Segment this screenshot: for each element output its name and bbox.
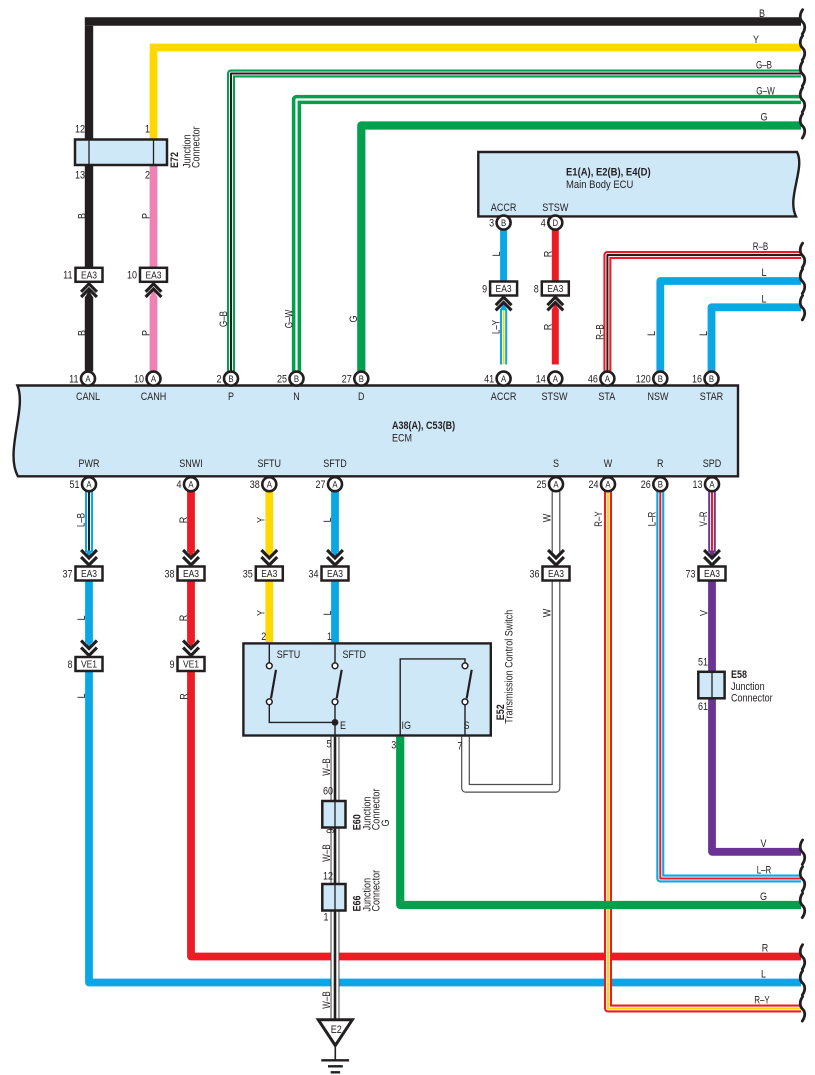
- label wire V–R: [698, 511, 710, 526]
- svg-text:A: A: [151, 374, 157, 385]
- svg-text:STSW: STSW: [542, 202, 569, 214]
- ECM bottom pin 38 A: [250, 477, 277, 491]
- svg-text:R–Y: R–Y: [754, 995, 770, 1007]
- svg-text:R: R: [657, 458, 664, 470]
- ECM bottom pin 24 A: [589, 477, 616, 491]
- wire G: to ECM pin D: [361, 126, 801, 372]
- label wire L–R: [646, 512, 658, 527]
- label wire W: [541, 513, 553, 522]
- svg-text:7: 7: [458, 741, 463, 753]
- svg-text:9: 9: [325, 829, 337, 834]
- svg-text:60: 60: [323, 785, 333, 797]
- svg-text:CANL: CANL: [76, 391, 100, 403]
- label E52: [495, 704, 507, 720]
- ECM top pin 16 B: [692, 372, 719, 386]
- label wire B: [759, 8, 765, 20]
- svg-text:61: 61: [698, 701, 708, 713]
- transmission control switch E52 box: [243, 643, 490, 735]
- svg-text:W–B: W–B: [321, 844, 333, 861]
- connector EA3 11: [63, 268, 102, 297]
- svg-text:CANH: CANH: [141, 391, 167, 403]
- connector EA3 37: [63, 550, 103, 581]
- svg-text:B: B: [709, 374, 714, 385]
- label wire R: [542, 324, 554, 331]
- label wire Y: [753, 34, 760, 46]
- ECM bottom pin 13 A: [693, 477, 720, 491]
- svg-text:G: G: [760, 891, 767, 903]
- svg-text:4: 4: [177, 479, 182, 491]
- svg-text:10: 10: [134, 374, 144, 386]
- svg-text:A: A: [553, 480, 559, 491]
- svg-text:R: R: [542, 251, 554, 258]
- svg-text:R–Y: R–Y: [593, 511, 605, 527]
- svg-text:ECM: ECM: [392, 432, 412, 444]
- svg-text:P: P: [140, 213, 152, 219]
- wire continuation brace: [800, 36, 805, 60]
- svg-text:STSW: STSW: [541, 391, 568, 403]
- wire R red: EA3 8 to ECM STSW: [552, 303, 559, 364]
- wire W white: EA3 36 down, left, up to E52 pin 7: [466, 581, 557, 789]
- svg-text:51: 51: [698, 656, 708, 668]
- svg-text:D: D: [358, 391, 365, 403]
- wire continuation brace: [800, 269, 805, 293]
- svg-text:EA3: EA3: [327, 569, 343, 580]
- svg-text:EA3: EA3: [548, 569, 564, 580]
- label E66 Junction: [361, 878, 373, 912]
- label E72: [169, 152, 181, 168]
- label ECM pin name NSW: [648, 391, 669, 403]
- svg-text:26: 26: [641, 479, 651, 491]
- label wire R–Y: [593, 511, 605, 527]
- wire W-B: E60 to E66: [331, 828, 340, 885]
- label ECM pin name SFTU: [258, 458, 282, 470]
- label wire L: [698, 331, 710, 336]
- label wire G: [761, 112, 768, 124]
- svg-text:G: G: [348, 316, 360, 323]
- label E60 Junction: [361, 797, 373, 831]
- label S in E52: [464, 720, 470, 732]
- label E52 pin 2: [261, 631, 266, 643]
- pin 3 B of Main Body ECU: [489, 216, 511, 230]
- label wire B: [76, 213, 88, 219]
- E52 SFTD switch: [332, 645, 342, 723]
- label wire W: [541, 608, 553, 617]
- svg-text:24: 24: [589, 479, 599, 491]
- junction connector E58: [698, 672, 724, 699]
- svg-text:B: B: [658, 480, 663, 491]
- label wire R: [762, 943, 769, 955]
- wire continuation brace: [800, 997, 805, 1021]
- wire continuation brace: [800, 62, 805, 86]
- svg-text:EA3: EA3: [547, 284, 563, 295]
- svg-text:14: 14: [536, 374, 546, 386]
- svg-text:9: 9: [170, 659, 175, 671]
- svg-text:W–B: W–B: [321, 991, 333, 1008]
- svg-text:B: B: [76, 213, 88, 219]
- svg-text:L–R: L–R: [646, 512, 658, 527]
- svg-text:46: 46: [588, 374, 598, 386]
- svg-text:L: L: [762, 294, 767, 306]
- ECM top pin 10 A: [134, 372, 161, 386]
- label ECM pin name D: [358, 391, 365, 403]
- wire V purple: EA3 73 through E58 down and right to edge: [712, 581, 801, 852]
- svg-text:ACCR: ACCR: [491, 391, 517, 403]
- label E52 Transmission Control Switch: [503, 610, 515, 724]
- wire B black: EA3 11 to ECM CANL (arrow tip): [85, 290, 92, 297]
- svg-text:S: S: [553, 458, 559, 470]
- ECM bottom pin 26 B: [641, 477, 668, 491]
- label ECM pin name S: [553, 458, 559, 470]
- label E60 pin 60: [323, 785, 333, 797]
- label E52 pin 3: [391, 739, 396, 751]
- svg-text:SPD: SPD: [703, 458, 722, 470]
- wire R-Y: ECM W down and right to edge: [608, 491, 801, 1008]
- label wire L: [491, 252, 503, 257]
- label wire L: [762, 267, 767, 279]
- label wire V: [698, 609, 710, 616]
- svg-text:13: 13: [693, 479, 703, 491]
- svg-text:A: A: [709, 480, 715, 491]
- ECM top pin 46 A: [588, 372, 615, 386]
- label E60 pin 9: [325, 829, 337, 834]
- svg-text:Y: Y: [256, 516, 268, 523]
- wire R-B: ECM STA up and right: [607, 255, 801, 371]
- svg-text:L–B: L–B: [75, 513, 87, 527]
- svg-text:PWR: PWR: [79, 458, 100, 470]
- label wire L: [761, 969, 766, 981]
- svg-text:1: 1: [324, 911, 329, 923]
- label wire G: [380, 820, 392, 827]
- svg-text:VE1: VE1: [81, 660, 97, 671]
- connector EA3 8: [534, 282, 569, 311]
- label ECM pin name PWR: [79, 458, 100, 470]
- wire continuation brace: [800, 88, 805, 112]
- wire P pink: E72 to EA3 10: [150, 165, 158, 268]
- svg-text:EA3: EA3: [704, 569, 720, 580]
- svg-text:EA3: EA3: [261, 569, 277, 580]
- label wire L: [322, 518, 334, 523]
- label ECM pin name CANH: [141, 391, 167, 403]
- label wire L–Y: [490, 320, 502, 334]
- label E66: [351, 896, 363, 912]
- svg-text:16: 16: [692, 374, 702, 386]
- svg-text:Main Body ECU: Main Body ECU: [566, 179, 633, 191]
- svg-text:Y: Y: [753, 34, 760, 46]
- svg-text:Junction: Junction: [731, 681, 765, 693]
- svg-text:9: 9: [482, 283, 487, 295]
- svg-text:IG: IG: [402, 720, 412, 732]
- svg-text:A: A: [501, 374, 507, 385]
- svg-text:EA3: EA3: [145, 270, 161, 281]
- svg-text:EA3: EA3: [496, 284, 512, 295]
- svg-text:B: B: [294, 374, 299, 385]
- svg-text:38: 38: [165, 568, 175, 580]
- label wire G: [348, 316, 360, 323]
- label wire R: [178, 517, 190, 524]
- label wire B: [76, 330, 88, 336]
- svg-text:73: 73: [686, 568, 696, 580]
- svg-text:B: B: [501, 218, 506, 229]
- pin 4 D of Main Body ECU: [541, 216, 563, 230]
- ECM bottom pin 25 A: [537, 477, 564, 491]
- label E72 Connector: [191, 126, 203, 168]
- wire L-B: ECM PWR to EA3 37: [85, 491, 92, 557]
- wire B black: E72 to EA3 11: [85, 165, 93, 268]
- wire L blue: EA3 34 to E52 pin 1: [331, 581, 339, 643]
- svg-text:A38(A), C53(B): A38(A), C53(B): [392, 420, 455, 432]
- svg-text:L–Y: L–Y: [490, 320, 502, 334]
- svg-text:B: B: [759, 8, 765, 20]
- svg-text:27: 27: [342, 374, 352, 386]
- E52 node E: [332, 719, 339, 737]
- E52 IG-S switch: [400, 659, 472, 736]
- svg-text:38: 38: [250, 479, 260, 491]
- ECM bottom pin 27 A: [316, 477, 343, 491]
- svg-text:2: 2: [217, 374, 222, 386]
- svg-text:EA3: EA3: [81, 270, 97, 281]
- label E52 pin 7: [458, 741, 463, 753]
- label E72 pin 2: [145, 170, 150, 182]
- svg-text:G: G: [380, 820, 392, 827]
- svg-text:3: 3: [391, 739, 396, 751]
- svg-text:E: E: [340, 720, 346, 732]
- wire L blue: ECM STAR up and right: [712, 307, 802, 371]
- label wire L: [322, 611, 334, 616]
- label E58 pin 51: [698, 656, 708, 668]
- svg-text:8: 8: [68, 659, 73, 671]
- svg-text:VE1: VE1: [183, 660, 199, 671]
- svg-text:B: B: [228, 374, 233, 385]
- connector EA3 10: [127, 268, 167, 297]
- wire R red: Main Body ECU STSW to EA3 8: [552, 230, 559, 282]
- svg-text:E58: E58: [731, 669, 747, 681]
- label wire G: [760, 891, 767, 903]
- wire L-Y: EA3 9 to ECM ACCR: [500, 303, 507, 364]
- label wire W–B: [321, 991, 333, 1008]
- label wire L: [76, 616, 88, 621]
- label E58: [731, 669, 747, 681]
- ECM box A38(A) C53(B): [14, 386, 738, 477]
- svg-text:A: A: [605, 480, 611, 491]
- label E58 pin 61: [698, 701, 708, 713]
- svg-text:35: 35: [243, 568, 253, 580]
- svg-text:A: A: [605, 374, 611, 385]
- svg-text:L: L: [322, 611, 334, 616]
- label wire G–B: [218, 311, 230, 327]
- svg-text:V: V: [698, 609, 710, 616]
- connector EA3 35: [243, 550, 283, 581]
- svg-text:Connector: Connector: [371, 870, 383, 912]
- svg-text:34: 34: [309, 568, 319, 580]
- svg-text:A: A: [553, 374, 559, 385]
- label wire V: [761, 838, 768, 850]
- label wire L: [646, 331, 658, 336]
- label wire R–B: [753, 241, 769, 253]
- svg-text:1: 1: [327, 631, 332, 643]
- wire continuation brace: [800, 243, 805, 267]
- svg-text:B: B: [359, 374, 364, 385]
- wire B (CANL) black: horizontal top and vertical to E72: [85, 22, 801, 140]
- label wire L: [76, 694, 88, 699]
- ECM bottom pin 51 A: [70, 477, 97, 491]
- ECM top pin 25 B: [277, 372, 304, 386]
- svg-text:P: P: [228, 391, 234, 403]
- label ECM pin name P: [228, 391, 234, 403]
- wire V-R: ECM SPD to EA3 73: [708, 491, 715, 557]
- svg-text:B: B: [76, 330, 88, 336]
- svg-text:V–R: V–R: [698, 511, 710, 526]
- connector EA3 34: [309, 550, 349, 581]
- label E52 pin 5: [327, 739, 332, 751]
- svg-text:120: 120: [636, 374, 651, 386]
- svg-text:NSW: NSW: [648, 391, 669, 403]
- wire R red: EA3 38 to VE1 9: [187, 581, 194, 649]
- wire Y yellow: horizontal top and vertical to E72: [150, 48, 801, 140]
- svg-text:36: 36: [530, 568, 540, 580]
- label E72 Junction: [181, 134, 193, 168]
- svg-text:R: R: [178, 517, 190, 524]
- svg-text:2: 2: [261, 631, 266, 643]
- connector VE1 8: [68, 641, 103, 672]
- svg-text:G–W: G–W: [756, 86, 775, 98]
- svg-text:12: 12: [323, 870, 333, 882]
- connector EA3 9: [482, 282, 517, 311]
- wire continuation brace: [800, 971, 805, 995]
- label SFTU in E52: [277, 649, 301, 661]
- svg-text:13: 13: [75, 170, 85, 182]
- ECM top pin 14 A: [536, 372, 563, 386]
- svg-text:L: L: [646, 331, 658, 336]
- label wire R: [178, 615, 190, 622]
- svg-text:12: 12: [75, 124, 85, 136]
- svg-text:L: L: [491, 252, 503, 257]
- label E66 Connector: [371, 870, 383, 912]
- label wire W–B: [321, 758, 333, 775]
- label ECM pin name N: [293, 391, 300, 403]
- svg-text:R–B: R–B: [594, 324, 606, 340]
- wire L blue: ECM SFTD to EA3 34: [331, 491, 338, 557]
- svg-text:EA3: EA3: [183, 569, 199, 580]
- svg-text:W: W: [604, 458, 613, 470]
- svg-text:R–B: R–B: [753, 241, 769, 253]
- connector EA3 36: [530, 550, 570, 581]
- wire L blue: VE1 8 down, right to edge (bottom horizontal): [89, 672, 801, 983]
- svg-text:E1(A), E2(B), E4(D): E1(A), E2(B), E4(D): [566, 167, 651, 179]
- svg-text:SNWI: SNWI: [179, 458, 203, 470]
- wire Y yellow: EA3 35 to E52 pin 2: [265, 581, 273, 643]
- label wire L–R: [757, 865, 772, 877]
- label wire L–B: [75, 513, 87, 527]
- svg-text:SFTD: SFTD: [343, 649, 367, 661]
- svg-text:Transmission Control Switch: Transmission Control Switch: [503, 610, 515, 724]
- svg-text:A: A: [86, 480, 92, 491]
- wire L blue: ECM NSW up and right: [660, 281, 801, 371]
- svg-text:2: 2: [145, 170, 150, 182]
- ECM top pin 41 A: [484, 372, 511, 386]
- wire B black: below EA3 11 to ECM CANL: [85, 297, 93, 372]
- ECM bottom pin 4 A: [177, 477, 199, 491]
- label ECM pin name SFTD: [323, 458, 347, 470]
- wire P pink: EA3 10 to ECM CANH (arrow tip): [150, 290, 157, 297]
- ECM top pin 120 B: [636, 372, 668, 386]
- svg-text:E72: E72: [169, 152, 181, 168]
- svg-text:37: 37: [63, 568, 73, 580]
- svg-text:P: P: [140, 330, 152, 336]
- svg-text:D: D: [553, 218, 559, 229]
- svg-text:4: 4: [541, 218, 546, 230]
- label wire Y: [256, 609, 268, 616]
- svg-text:R: R: [178, 693, 190, 700]
- wire P pink: below EA3 10 to ECM CANH: [150, 297, 158, 372]
- svg-text:N: N: [293, 391, 300, 403]
- svg-text:11: 11: [69, 374, 78, 386]
- wire continuation brace: [800, 840, 805, 864]
- svg-text:L: L: [76, 694, 88, 699]
- label wire W–B: [321, 844, 333, 861]
- svg-text:Connector: Connector: [191, 126, 203, 168]
- svg-text:5: 5: [327, 739, 332, 751]
- svg-text:1: 1: [145, 124, 150, 136]
- wire W-B: E66 to ground E2: [331, 909, 340, 1020]
- label IG in E52: [402, 720, 412, 732]
- label E52 pin 1: [327, 631, 332, 643]
- wire L blue: Main Body ECU ACCR to EA3 9: [500, 230, 507, 282]
- wire continuation brace: [800, 114, 805, 138]
- wire continuation brace: [800, 893, 805, 917]
- label E72 pin 12: [75, 124, 85, 136]
- label SFTD in E52: [343, 649, 367, 661]
- label E66 pin 1: [324, 911, 329, 923]
- label E60: [351, 814, 363, 830]
- svg-text:L: L: [762, 267, 767, 279]
- label wire R: [178, 693, 190, 700]
- wire continuation brace: [800, 945, 805, 969]
- label ECM pin name STA: [598, 391, 615, 403]
- svg-text:SFTD: SFTD: [323, 458, 347, 470]
- label wire R: [542, 251, 554, 258]
- svg-text:L: L: [698, 331, 710, 336]
- label wire G–W: [756, 86, 775, 98]
- wire Y yellow: ECM SFTU to EA3 35: [266, 491, 273, 557]
- svg-text:R: R: [542, 324, 554, 331]
- svg-text:L: L: [322, 518, 334, 523]
- junction connector E60: [322, 801, 345, 828]
- Main Body ECU box E1(A) E2(B) E4(D): [478, 152, 799, 216]
- svg-text:G–B: G–B: [218, 311, 230, 327]
- svg-text:A: A: [85, 374, 91, 385]
- svg-text:G–B: G–B: [756, 60, 772, 72]
- junction connector E72: [75, 140, 167, 166]
- label E in E52: [340, 720, 346, 732]
- ECM top pin 2 B: [217, 372, 239, 386]
- ECM top pin 27 B: [342, 372, 369, 386]
- svg-text:EA3: EA3: [81, 569, 97, 580]
- svg-text:G: G: [761, 112, 768, 124]
- label wire R–Y: [754, 995, 770, 1007]
- svg-text:25: 25: [537, 479, 547, 491]
- svg-text:R: R: [178, 615, 190, 622]
- label wire L: [762, 294, 767, 306]
- label E58 Connector: [731, 693, 773, 705]
- wire L blue: EA3 37 to VE1 8: [85, 581, 92, 649]
- svg-text:51: 51: [70, 479, 80, 491]
- label ECM pin name STAR: [700, 391, 723, 403]
- wire L-R: ECM R down and right to edge: [660, 491, 801, 878]
- connector EA3 38: [165, 550, 205, 581]
- label E66 pin 12: [323, 870, 333, 882]
- svg-text:25: 25: [277, 374, 287, 386]
- svg-text:V: V: [761, 838, 768, 850]
